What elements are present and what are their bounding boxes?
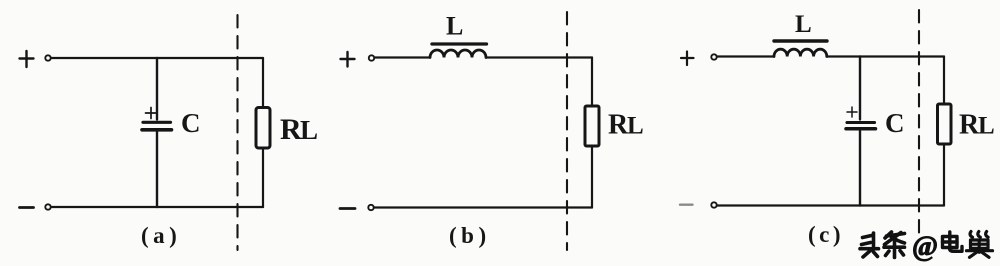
input terminal top (c) <box>711 54 716 59</box>
svg-text:@: @ <box>912 232 938 263</box>
wire bottom (c) <box>717 204 944 206</box>
+ terminal polarity mark (a) <box>20 51 34 67</box>
svg-text:C: C <box>885 108 905 138</box>
capacitor C plates (a) <box>143 121 171 124</box>
wire right vertical lower (a) <box>262 149 264 208</box>
wire top-right (b) <box>486 56 592 58</box>
wire top-left (c) <box>717 55 774 57</box>
+ terminal polarity mark (c) <box>681 52 694 66</box>
wire right vertical lower (c) <box>943 144 945 206</box>
input terminal bottom (a) <box>45 204 50 209</box>
dashed separator line (a) <box>236 15 238 250</box>
wire right vertical upper (b) <box>591 58 593 107</box>
svg-text:L: L <box>446 12 463 41</box>
capacitor C plates (c) <box>847 121 875 124</box>
dashed separator line (b) <box>566 12 568 250</box>
capacitor C polarity + (c) <box>847 107 857 117</box>
+ terminal polarity mark (b) <box>341 52 355 67</box>
resistor RL box (a) <box>256 108 270 149</box>
wire bottom (b) <box>375 206 593 208</box>
watermark glyph 电 <box>943 232 963 251</box>
- terminal polarity mark (a) <box>20 206 34 209</box>
wire bottom (a) <box>52 206 264 208</box>
input terminal bottom (b) <box>368 205 373 210</box>
svg-text:L: L <box>300 115 318 145</box>
wire top-left (b) <box>375 56 430 58</box>
inductor L coil (c) <box>774 49 827 56</box>
wire right vertical upper (c) <box>943 57 945 105</box>
wire right vertical upper (a) <box>262 58 264 107</box>
input terminal top (b) <box>369 55 374 60</box>
watermark glyph 头 <box>860 233 879 257</box>
dashed separator line (c) <box>918 10 920 233</box>
svg-text:R: R <box>959 110 980 141</box>
capacitor C1 polarity + (a) <box>146 108 157 119</box>
wire capacitor branch lower (a) <box>156 132 158 208</box>
svg-text:R: R <box>608 110 629 141</box>
svg-text:R: R <box>280 113 302 146</box>
svg-text:L: L <box>978 113 995 140</box>
svg-text:C: C <box>181 108 201 138</box>
inductor L core bar (c) <box>774 39 827 42</box>
wire right vertical lower (b) <box>591 146 593 208</box>
wire top-right (c) <box>827 55 944 57</box>
svg-text:(b): (b) <box>449 223 491 248</box>
watermark glyph 条 <box>884 232 905 258</box>
inductor L coil (b) <box>430 50 486 57</box>
resistor RL box (b) <box>585 106 599 146</box>
inductor L core bar (b) <box>432 42 487 45</box>
watermark 头条@电巢 <box>860 232 905 258</box>
svg-text:L: L <box>795 11 812 38</box>
input terminal bottom (c) <box>711 202 716 207</box>
- terminal polarity mark (b) <box>340 207 355 210</box>
svg-text:(a): (a) <box>141 223 181 248</box>
resistor RL box (c) <box>938 104 952 144</box>
svg-text:L: L <box>627 113 644 140</box>
svg-text:(c): (c) <box>808 222 844 247</box>
wire capacitor branch upper (a) <box>156 58 158 120</box>
watermark glyph 巢 <box>967 232 993 258</box>
wire capacitor branch lower (c) <box>859 131 861 206</box>
input terminal top (a) <box>45 55 50 60</box>
wire capacitor branch upper (c) <box>859 57 861 120</box>
wire top (a) <box>52 57 264 59</box>
- terminal polarity mark (c) <box>680 203 693 205</box>
